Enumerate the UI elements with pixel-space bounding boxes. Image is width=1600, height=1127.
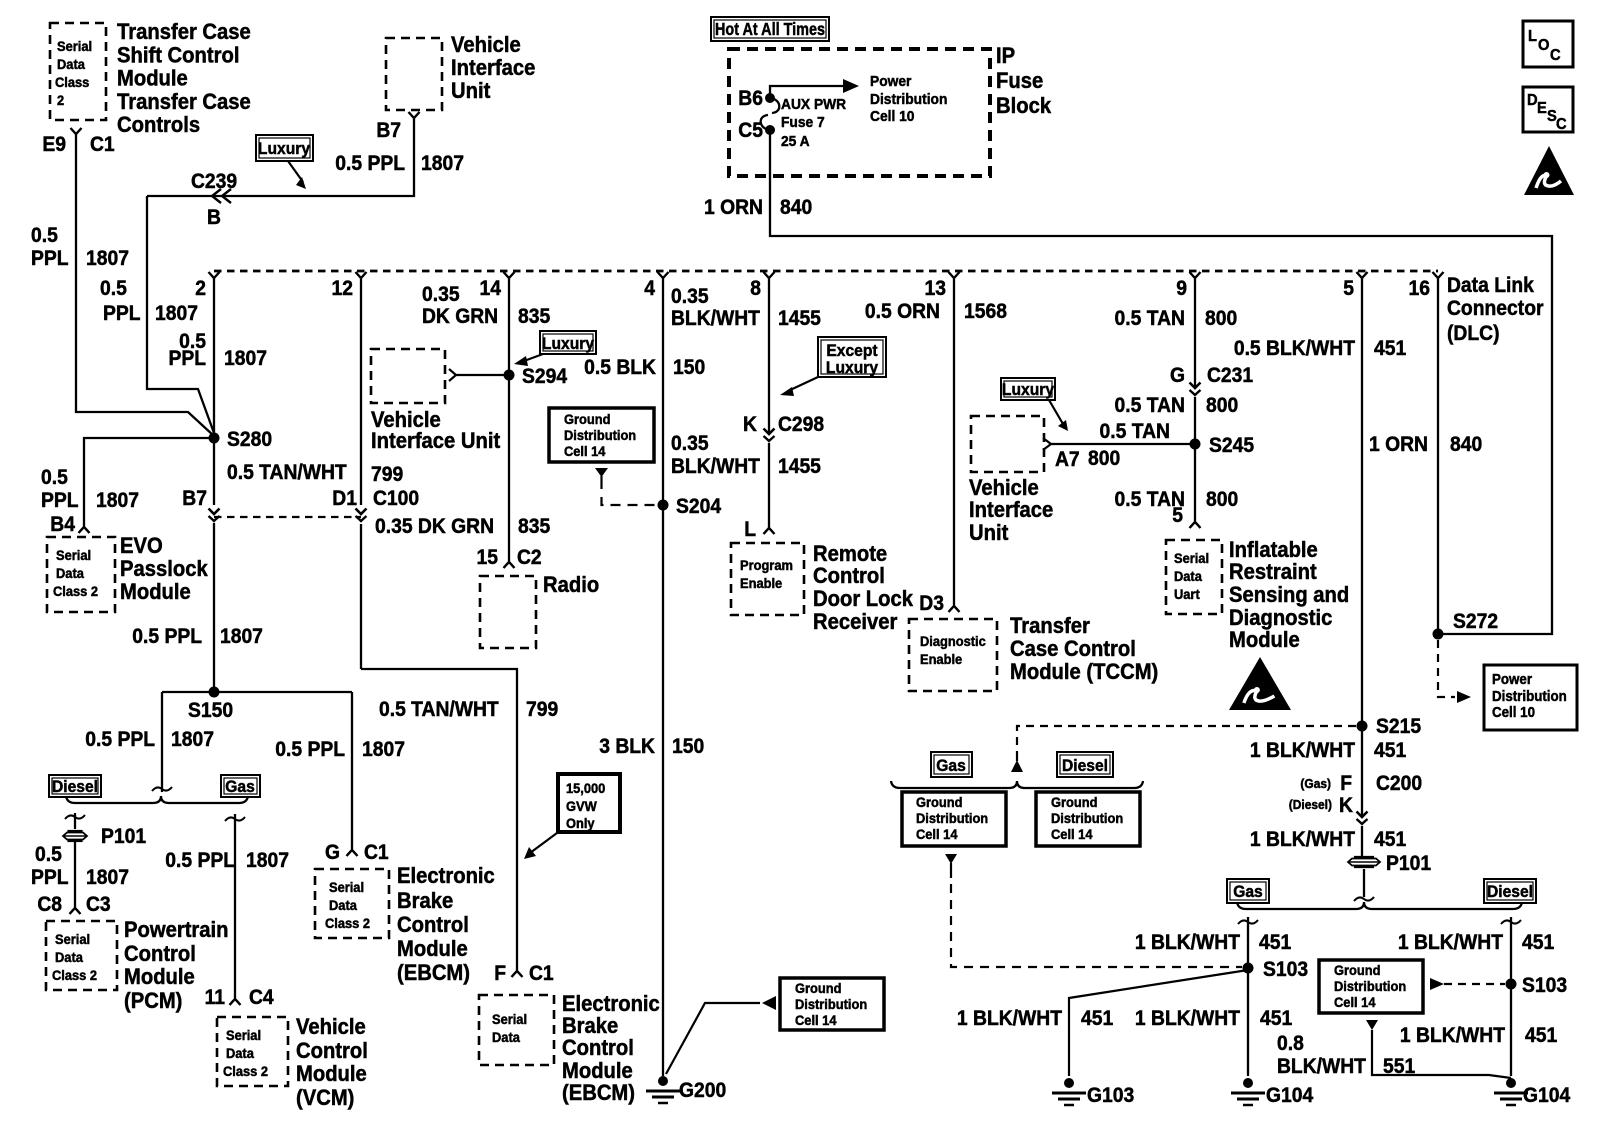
svg-text:Diagnostic: Diagnostic (1229, 606, 1333, 630)
svg-text:451: 451 (1525, 1024, 1557, 1047)
svg-text:1 ORN: 1 ORN (704, 196, 763, 219)
svg-text:Transfer Case: Transfer Case (117, 20, 251, 44)
svg-text:C: C (1556, 115, 1567, 133)
svg-text:13: 13 (925, 277, 946, 300)
svg-text:2: 2 (57, 93, 64, 109)
svg-text:451: 451 (1081, 1007, 1113, 1030)
svg-text:Door Lock: Door Lock (813, 587, 913, 611)
svg-text:1568: 1568 (964, 300, 1007, 323)
svg-text:0.5 PPL: 0.5 PPL (335, 152, 405, 175)
svg-text:BLK/WHT: BLK/WHT (1277, 1055, 1367, 1078)
svg-text:451: 451 (1522, 931, 1554, 954)
svg-text:451: 451 (1374, 828, 1406, 851)
svg-text:B7: B7 (182, 487, 207, 510)
svg-text:1 BLK/WHT: 1 BLK/WHT (1250, 739, 1356, 762)
svg-text:Ground: Ground (916, 795, 962, 811)
svg-text:0.5 ORN: 0.5 ORN (865, 300, 940, 323)
svg-text:Data Link: Data Link (1447, 274, 1535, 297)
svg-text:Serial: Serial (57, 39, 92, 55)
svg-text:Interface: Interface (969, 498, 1054, 522)
svg-text:Data: Data (57, 57, 85, 73)
svg-text:C3: C3 (86, 893, 111, 916)
svg-text:Electronic: Electronic (397, 864, 495, 888)
svg-text:C: C (1550, 46, 1561, 64)
svg-text:1 BLK/WHT: 1 BLK/WHT (1135, 931, 1241, 954)
svg-text:1 BLK/WHT: 1 BLK/WHT (1135, 1007, 1241, 1030)
svg-text:Inflatable: Inflatable (1229, 538, 1318, 562)
svg-text:Control: Control (124, 942, 196, 966)
svg-text:11: 11 (205, 986, 225, 1009)
svg-text:S245: S245 (1209, 434, 1254, 457)
svg-text:0.35: 0.35 (671, 432, 709, 455)
svg-text:C8: C8 (37, 893, 62, 916)
svg-text:0.5: 0.5 (41, 466, 68, 489)
svg-text:0.5 TAN: 0.5 TAN (1100, 420, 1170, 443)
svg-text:0.5: 0.5 (31, 224, 58, 247)
svg-text:E9: E9 (42, 133, 66, 156)
svg-text:Module: Module (296, 1062, 367, 1086)
svg-text:840: 840 (780, 196, 812, 219)
svg-text:G: G (325, 841, 340, 864)
svg-text:C5: C5 (738, 119, 763, 142)
svg-text:C100: C100 (373, 487, 419, 510)
svg-text:Restraint: Restraint (1229, 560, 1317, 584)
svg-text:C2: C2 (517, 546, 542, 569)
svg-text:IP: IP (996, 44, 1015, 68)
svg-text:Serial: Serial (492, 1012, 527, 1028)
svg-text:Control: Control (562, 1036, 634, 1060)
svg-text:O: O (1538, 36, 1549, 54)
svg-text:0.35: 0.35 (671, 285, 709, 308)
svg-text:0.5 PPL: 0.5 PPL (165, 849, 235, 872)
svg-text:F: F (1340, 772, 1352, 795)
svg-text:S294: S294 (522, 365, 568, 388)
svg-text:Data: Data (329, 898, 357, 914)
svg-text:Gas: Gas (225, 777, 255, 796)
svg-text:(VCM): (VCM) (296, 1086, 354, 1110)
svg-text:Brake: Brake (397, 889, 453, 913)
svg-text:L: L (744, 518, 756, 541)
svg-text:Control: Control (296, 1039, 368, 1063)
svg-text:Unit: Unit (969, 521, 1008, 545)
svg-text:1807: 1807 (86, 866, 129, 889)
svg-text:K: K (743, 413, 757, 436)
svg-text:Serial: Serial (329, 880, 364, 896)
svg-text:Power: Power (1492, 670, 1533, 687)
svg-text:835: 835 (518, 305, 550, 328)
svg-text:800: 800 (1206, 488, 1238, 511)
svg-text:Module: Module (562, 1059, 633, 1083)
svg-text:Enable: Enable (920, 652, 963, 668)
svg-text:Interface Unit: Interface Unit (371, 429, 500, 453)
svg-text:G200: G200 (679, 1079, 726, 1102)
svg-text:Serial: Serial (55, 932, 90, 948)
svg-text:Remote: Remote (813, 542, 887, 566)
svg-text:K: K (1339, 794, 1353, 817)
svg-text:B4: B4 (50, 513, 75, 536)
svg-text:Cell 14: Cell 14 (1051, 827, 1093, 843)
svg-text:16: 16 (1409, 277, 1430, 300)
svg-text:551: 551 (1383, 1055, 1415, 1078)
svg-text:1 BLK/WHT: 1 BLK/WHT (1250, 828, 1356, 851)
svg-text:451: 451 (1374, 739, 1406, 762)
svg-text:Interface: Interface (451, 56, 536, 80)
svg-text:Shift Control: Shift Control (117, 44, 239, 68)
svg-text:Enable: Enable (740, 576, 783, 592)
svg-text:E: E (1537, 99, 1547, 117)
svg-text:PPL: PPL (103, 302, 141, 325)
svg-text:Ground: Ground (1051, 795, 1097, 811)
svg-text:Data: Data (55, 950, 83, 966)
svg-text:Unit: Unit (451, 79, 490, 103)
svg-text:0.5 PPL: 0.5 PPL (275, 738, 345, 761)
svg-text:840: 840 (1450, 433, 1482, 456)
svg-text:D1: D1 (332, 487, 357, 510)
svg-text:Distribution: Distribution (1492, 687, 1567, 704)
svg-text:(Diesel): (Diesel) (1289, 798, 1332, 813)
svg-text:BLK/WHT: BLK/WHT (671, 455, 761, 478)
svg-text:Luxury: Luxury (1002, 380, 1054, 399)
svg-text:PPL: PPL (168, 347, 206, 370)
svg-text:0.35: 0.35 (422, 283, 460, 306)
svg-text:1807: 1807 (246, 849, 289, 872)
svg-text:Serial: Serial (56, 548, 91, 564)
svg-text:D: D (1527, 91, 1538, 109)
svg-text:Brake: Brake (562, 1014, 618, 1038)
svg-text:(Gas): (Gas) (1300, 777, 1331, 792)
svg-text:L: L (1528, 27, 1537, 45)
svg-text:S280: S280 (227, 428, 272, 451)
svg-text:0.5 BLK: 0.5 BLK (584, 356, 656, 379)
svg-text:0.5 BLK/WHT: 0.5 BLK/WHT (1234, 337, 1356, 360)
svg-text:Except: Except (826, 341, 878, 360)
svg-text:C1: C1 (364, 841, 389, 864)
svg-text:GVW: GVW (566, 799, 597, 815)
svg-text:1807: 1807 (171, 728, 214, 751)
svg-text:BLK/WHT: BLK/WHT (671, 307, 761, 330)
svg-text:Connector: Connector (1447, 297, 1544, 320)
svg-text:150: 150 (672, 735, 704, 758)
svg-text:G: G (1170, 364, 1185, 387)
svg-text:Uart: Uart (1174, 587, 1200, 603)
svg-text:Powertrain: Powertrain (124, 918, 229, 942)
svg-text:Module: Module (124, 965, 195, 989)
svg-text:1 BLK/WHT: 1 BLK/WHT (1400, 1024, 1506, 1047)
svg-text:0.5 TAN/WHT: 0.5 TAN/WHT (227, 461, 347, 484)
svg-text:Cell 14: Cell 14 (564, 444, 606, 460)
svg-text:G103: G103 (1087, 1084, 1134, 1107)
svg-text:799: 799 (371, 463, 403, 486)
svg-text:B7: B7 (376, 119, 401, 142)
svg-text:Data: Data (1174, 569, 1202, 585)
svg-text:8: 8 (750, 277, 761, 300)
svg-text:Cell 14: Cell 14 (795, 1013, 837, 1029)
svg-text:P101: P101 (1386, 852, 1431, 875)
svg-text:Fuse: Fuse (996, 69, 1043, 93)
svg-text:DK GRN: DK GRN (422, 305, 498, 328)
svg-text:Cell 14: Cell 14 (916, 827, 958, 843)
svg-text:Data: Data (492, 1030, 520, 1046)
svg-text:S204: S204 (676, 495, 722, 518)
svg-text:Electronic: Electronic (562, 992, 660, 1016)
svg-text:PPL: PPL (31, 866, 69, 889)
svg-text:Program: Program (740, 558, 793, 574)
svg-text:EVO: EVO (120, 534, 163, 558)
svg-text:P101: P101 (101, 825, 146, 848)
svg-text:4: 4 (644, 277, 655, 300)
svg-text:Transfer Case: Transfer Case (117, 90, 251, 114)
svg-text:Control: Control (397, 913, 469, 937)
svg-text:451: 451 (1374, 337, 1406, 360)
svg-text:1 BLK/WHT: 1 BLK/WHT (957, 1007, 1063, 1030)
svg-text:1807: 1807 (421, 152, 464, 175)
svg-text:Diesel: Diesel (1487, 882, 1533, 901)
svg-text:Module: Module (120, 580, 191, 604)
svg-text:3 BLK: 3 BLK (599, 735, 655, 758)
svg-text:1807: 1807 (96, 489, 139, 512)
svg-text:Diesel: Diesel (1062, 756, 1108, 775)
svg-text:Distribution: Distribution (916, 811, 988, 827)
svg-text:C231: C231 (1207, 364, 1253, 387)
svg-text:Module: Module (397, 937, 468, 961)
svg-text:1455: 1455 (778, 307, 821, 330)
svg-text:A7: A7 (1055, 448, 1080, 471)
svg-text:Transfer: Transfer (1010, 614, 1090, 638)
svg-text:Case Control: Case Control (1010, 637, 1136, 661)
svg-text:799: 799 (526, 698, 558, 721)
svg-text:(PCM): (PCM) (124, 989, 182, 1013)
svg-text:0.5 TAN: 0.5 TAN (1115, 394, 1185, 417)
svg-text:0.35 DK GRN: 0.35 DK GRN (375, 515, 494, 538)
svg-text:B: B (207, 206, 221, 229)
svg-text:Data: Data (56, 566, 84, 582)
svg-text:150: 150 (673, 356, 705, 379)
svg-text:Cell 10: Cell 10 (870, 109, 914, 126)
svg-text:Module: Module (1229, 628, 1300, 652)
svg-text:Cell 10: Cell 10 (1492, 703, 1535, 720)
svg-text:Distribution: Distribution (795, 997, 867, 1013)
svg-text:Block: Block (996, 94, 1051, 118)
svg-text:9: 9 (1176, 277, 1187, 300)
svg-text:S150: S150 (188, 699, 233, 722)
svg-text:B6: B6 (738, 87, 763, 110)
svg-text:1807: 1807 (362, 738, 405, 761)
svg-text:Distribution: Distribution (870, 92, 947, 109)
svg-text:Ground: Ground (564, 412, 610, 428)
svg-text:C239: C239 (191, 170, 237, 193)
svg-text:835: 835 (518, 515, 550, 538)
svg-text:Serial: Serial (1174, 551, 1209, 567)
svg-text:Distribution: Distribution (1334, 979, 1406, 995)
svg-text:Class 2: Class 2 (223, 1064, 268, 1080)
svg-text:C298: C298 (778, 413, 824, 436)
svg-text:Vehicle: Vehicle (451, 33, 521, 57)
svg-text:C1: C1 (529, 962, 554, 985)
svg-text:Distribution: Distribution (1051, 811, 1123, 827)
svg-text:S272: S272 (1453, 610, 1498, 633)
svg-text:F: F (494, 962, 506, 985)
svg-text:Diagnostic: Diagnostic (920, 634, 986, 650)
svg-text:Luxury: Luxury (826, 358, 878, 377)
svg-text:Diesel: Diesel (52, 777, 98, 796)
svg-text:Passlock: Passlock (120, 557, 208, 581)
svg-text:0.5: 0.5 (35, 843, 62, 866)
svg-text:D3: D3 (919, 592, 944, 615)
svg-text:Distribution: Distribution (564, 428, 636, 444)
svg-text:1455: 1455 (778, 455, 821, 478)
svg-text:Control: Control (813, 564, 885, 588)
svg-text:C200: C200 (1376, 772, 1422, 795)
svg-text:Hot At All Times: Hot At All Times (715, 18, 825, 39)
svg-text:C1: C1 (90, 133, 115, 156)
svg-text:14: 14 (480, 277, 502, 300)
svg-text:0.5 PPL: 0.5 PPL (132, 625, 202, 648)
svg-text:S103: S103 (1522, 974, 1567, 997)
svg-text:0.5 TAN/WHT: 0.5 TAN/WHT (379, 698, 499, 721)
svg-text:451: 451 (1260, 1007, 1292, 1030)
svg-text:S103: S103 (1263, 958, 1308, 981)
svg-text:0.5: 0.5 (100, 277, 127, 300)
svg-text:451: 451 (1259, 931, 1291, 954)
svg-text:C4: C4 (249, 986, 274, 1009)
svg-text:G104: G104 (1266, 1084, 1314, 1107)
svg-text:1 BLK/WHT: 1 BLK/WHT (1398, 931, 1504, 954)
svg-text:Fuse 7: Fuse 7 (781, 115, 825, 132)
svg-text:1807: 1807 (220, 625, 263, 648)
svg-text:Data: Data (226, 1046, 254, 1062)
svg-text:1807: 1807 (224, 347, 267, 370)
svg-text:Serial: Serial (226, 1028, 261, 1044)
svg-text:0.5 PPL: 0.5 PPL (85, 728, 155, 751)
svg-text:1 ORN: 1 ORN (1369, 433, 1428, 456)
svg-text:G104: G104 (1523, 1084, 1571, 1107)
svg-text:25 A: 25 A (781, 134, 810, 151)
svg-text:(EBCM): (EBCM) (397, 961, 470, 985)
svg-text:Power: Power (870, 74, 912, 91)
svg-text:15,000: 15,000 (566, 781, 605, 797)
svg-text:Module (TCCM): Module (TCCM) (1010, 660, 1158, 684)
svg-text:Ground: Ground (1334, 963, 1380, 979)
svg-text:Receiver: Receiver (813, 610, 897, 634)
svg-text:Gas: Gas (936, 756, 966, 775)
svg-text:Cell 14: Cell 14 (1334, 995, 1376, 1011)
svg-text:800: 800 (1206, 394, 1238, 417)
svg-text:Vehicle: Vehicle (969, 476, 1039, 500)
svg-text:(DLC): (DLC) (1447, 322, 1500, 345)
svg-text:5: 5 (1343, 277, 1354, 300)
svg-text:(EBCM): (EBCM) (562, 1081, 635, 1105)
svg-text:Radio: Radio (543, 573, 599, 597)
svg-text:1807: 1807 (86, 247, 129, 270)
svg-text:15: 15 (477, 546, 498, 569)
svg-text:PPL: PPL (31, 247, 69, 270)
svg-text:800: 800 (1088, 447, 1120, 470)
svg-text:Class 2: Class 2 (325, 916, 370, 932)
svg-text:800: 800 (1205, 307, 1237, 330)
svg-text:1807: 1807 (155, 302, 198, 325)
svg-text:Sensing and: Sensing and (1229, 583, 1349, 607)
svg-text:0.8: 0.8 (1277, 1032, 1304, 1055)
svg-text:Ground: Ground (795, 981, 841, 997)
svg-text:AUX PWR: AUX PWR (781, 97, 847, 114)
svg-text:2: 2 (195, 277, 206, 300)
svg-text:Module: Module (117, 67, 188, 91)
svg-text:Only: Only (566, 816, 595, 832)
svg-text:0.5 TAN: 0.5 TAN (1115, 307, 1185, 330)
svg-text:Luxury: Luxury (542, 334, 594, 353)
svg-text:12: 12 (332, 277, 353, 300)
svg-text:5: 5 (1172, 504, 1183, 527)
svg-text:Class 2: Class 2 (52, 968, 97, 984)
svg-text:Luxury: Luxury (258, 139, 310, 158)
svg-text:S215: S215 (1376, 715, 1421, 738)
svg-text:Vehicle: Vehicle (296, 1015, 366, 1039)
svg-text:Controls: Controls (117, 113, 200, 137)
svg-text:Class 2: Class 2 (53, 584, 98, 600)
svg-text:Gas: Gas (1233, 882, 1263, 901)
svg-text:PPL: PPL (41, 489, 79, 512)
svg-text:Class: Class (55, 75, 89, 91)
